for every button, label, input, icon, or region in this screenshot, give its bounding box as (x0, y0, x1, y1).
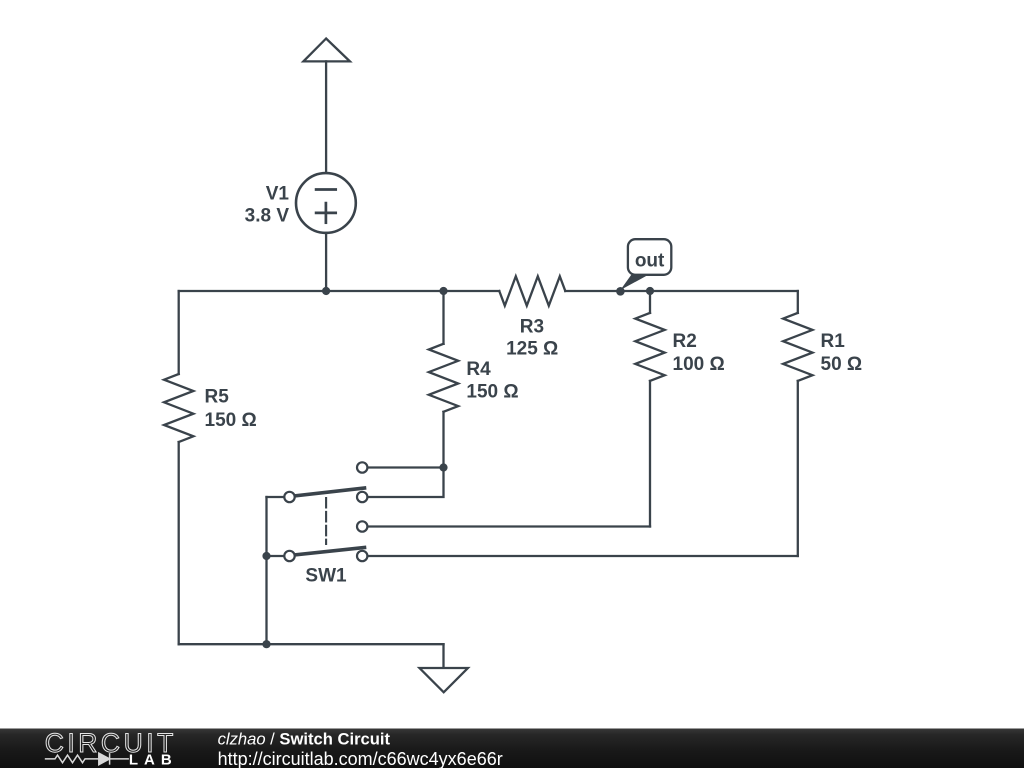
wire top bus corner to R1 (797, 291, 799, 313)
resistor R4 body (429, 344, 458, 412)
wire bottom bus (179, 643, 444, 645)
resistor R1 body (783, 313, 812, 381)
svg-text:150 Ω: 150 Ω (466, 381, 518, 402)
svg-text:150 Ω: 150 Ω (205, 410, 257, 431)
wire pole B stub (267, 555, 285, 557)
wire left rail down to bottom bus (265, 497, 267, 644)
wire top bus right segment (565, 290, 798, 292)
wire R4 node down to row2 throw (367, 468, 443, 498)
wire switch row3 to R2 (367, 525, 650, 527)
power supply arrow (V+ terminal) (303, 39, 350, 62)
svg-text:V1: V1 (266, 184, 290, 205)
node junction row1-R4 (439, 463, 447, 471)
svg-text:100 Ω: 100 Ω (673, 354, 725, 375)
svg-text:LAB: LAB (129, 752, 178, 768)
svg-text:3.8 V: 3.8 V (245, 206, 290, 227)
wire V1 bottom to top bus (325, 233, 327, 291)
switch SW1 mechanical link (dashed) (325, 498, 327, 544)
wire bus to ground (442, 644, 444, 668)
svg-text:clzhao / Switch Circuit: clzhao / Switch Circuit (218, 730, 391, 749)
svg-text:R3: R3 (520, 317, 544, 338)
switch pole B terminal (284, 551, 294, 561)
wire switch row1 to R4 node (367, 466, 443, 468)
svg-text:SW1: SW1 (305, 566, 347, 587)
svg-text:R4: R4 (466, 359, 491, 380)
svg-text:http://circuitlab.com/c66wc4yx: http://circuitlab.com/c66wc4yx6e66r (218, 749, 503, 768)
wire pole A to left rail (267, 496, 285, 498)
node junction R4-bus (439, 287, 447, 295)
resistor R5 body (164, 374, 193, 442)
voltage source V1 body (296, 173, 356, 233)
node junction rail-bottom bus (262, 640, 270, 648)
ground symbol (420, 668, 468, 692)
svg-text:125 Ω: 125 Ω (506, 339, 558, 360)
wire switch row4 to R1 (367, 555, 797, 557)
logo resistor-diode squiggle (45, 753, 129, 765)
node junction R2-bus (646, 287, 654, 295)
resistor R3 body (499, 276, 565, 305)
svg-text:R2: R2 (673, 331, 697, 352)
switch pole A terminal (284, 492, 294, 502)
switch terminal row4 throw (357, 551, 367, 561)
V1 plus sign (316, 212, 336, 215)
wire R4 to switch throw node (442, 412, 444, 468)
switch SW1 blade B (294, 548, 365, 556)
V1 minus sign (316, 188, 336, 191)
wire top bus to R4 (442, 291, 444, 344)
svg-text:out: out (635, 251, 665, 272)
switch SW1 blade A (294, 488, 365, 496)
node out (616, 287, 625, 296)
wire arrow to V1 top (325, 61, 327, 173)
switch terminal row2 throw (357, 492, 367, 502)
svg-text:50 Ω: 50 Ω (821, 354, 863, 375)
out flag box (628, 239, 671, 275)
svg-text:R1: R1 (821, 331, 846, 352)
wire R2 to switch row3 (649, 381, 651, 527)
wire R1 to switch row4 (797, 381, 799, 556)
resistor R2 body (635, 313, 664, 381)
svg-text:R5: R5 (205, 386, 230, 407)
switch terminal row3 throw (357, 521, 367, 531)
wire top bus to R2 (649, 291, 651, 313)
switch terminal row1 throw (357, 462, 367, 472)
wire top bus left segment (179, 290, 500, 292)
wire R5 to bottom bus (178, 442, 180, 644)
node junction V1-bus (322, 287, 330, 295)
node junction poleB-rail (262, 552, 270, 560)
out flag pointer wedge (620, 275, 648, 290)
wire top bus to R5 (178, 291, 180, 374)
